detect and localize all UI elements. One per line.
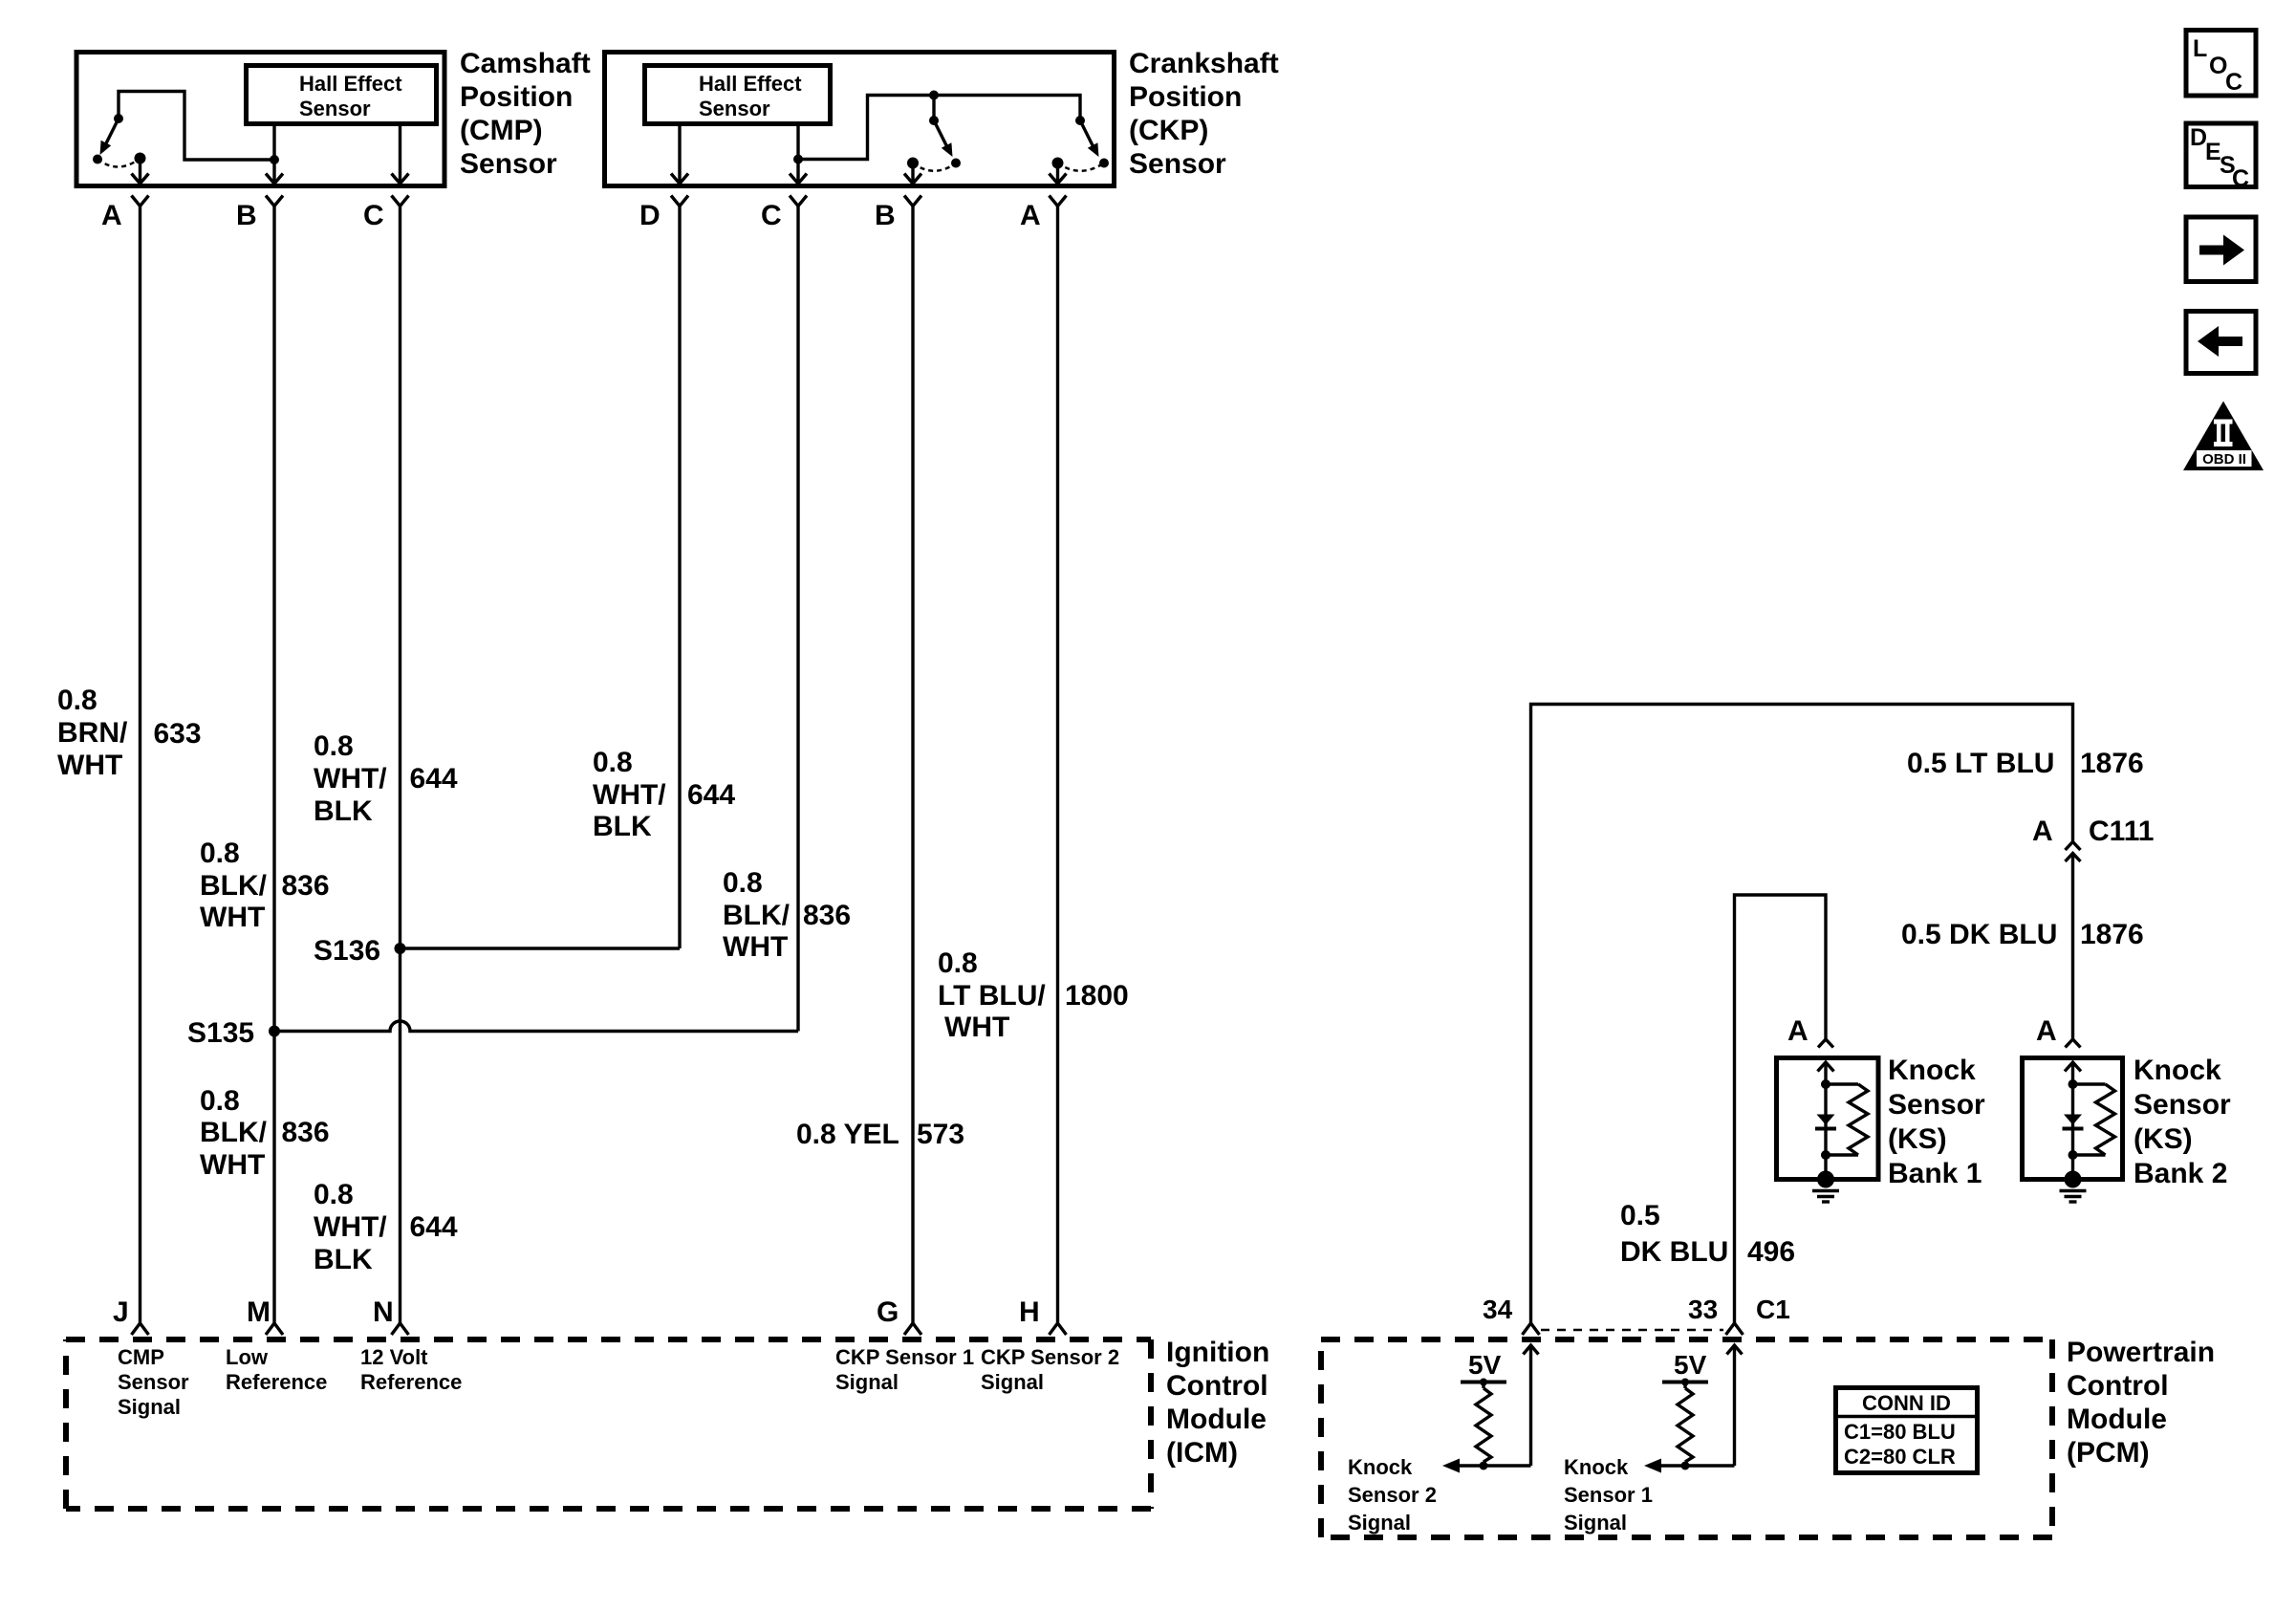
DESC icon box [2186, 123, 2256, 192]
svg-text:C: C [2232, 165, 2249, 192]
svg-text:A: A [2032, 816, 2053, 847]
svg-text:5V: 5V [1674, 1350, 1707, 1380]
svg-text:Knock: Knock [1888, 1055, 1976, 1086]
PCM module title [2067, 1337, 2215, 1469]
svg-text:(KS): (KS) [1888, 1123, 1947, 1155]
CKP sensor title [1129, 48, 1279, 180]
splice S135 wire with hop [274, 1021, 798, 1032]
PCM module dashed box [1321, 1339, 2052, 1537]
connector C111 upper fork [2066, 842, 2081, 851]
CKP switch A dashed arc [1058, 163, 1105, 171]
svg-text:496: 496 [1747, 1236, 1795, 1268]
svg-text:B: B [236, 200, 257, 231]
svg-text:Sensor: Sensor [1129, 148, 1226, 180]
KS1 internal wire with up arrow [1818, 1062, 1834, 1180]
ICM pin G fork [904, 1323, 921, 1335]
wire 644 12 volt reference (CMP C) [399, 207, 401, 1323]
CMP pin B junction dot [270, 155, 279, 164]
label 0.8 BLK/WHT CKP C [723, 867, 791, 963]
svg-text:Sensor: Sensor [1888, 1089, 1985, 1121]
PCM 5V supply bar (33) [1662, 1379, 1708, 1386]
label 0.8 LT BLU/WHT [938, 947, 1046, 1043]
CKP switch A arm [1080, 120, 1099, 157]
svg-text:836: 836 [282, 1117, 330, 1148]
PCM label Knock Sensor 2 Signal [1348, 1455, 1437, 1535]
svg-text:33: 33 [1688, 1295, 1718, 1324]
label 0.5 DK BLU 496 [1620, 1200, 1728, 1268]
svg-text:836: 836 [282, 870, 330, 902]
KS2 connector fork [2066, 1039, 2081, 1048]
svg-text:Module: Module [1166, 1404, 1267, 1435]
svg-text:(CMP): (CMP) [460, 115, 543, 146]
svg-text:LT BLU/: LT BLU/ [938, 980, 1046, 1012]
svg-text:Signal: Signal [118, 1395, 181, 1419]
PCM pin 33 internal wire [1727, 1345, 1743, 1466]
svg-text:0.8: 0.8 [593, 747, 633, 778]
wire 496 DK BLU run [1735, 895, 1827, 1323]
PCM label Knock Sensor 1 Signal [1564, 1455, 1653, 1535]
PCM 5V supply bar (34) [1461, 1379, 1506, 1386]
CKP pin C connector fork [790, 196, 807, 207]
svg-text:C2=80 CLR: C2=80 CLR [1844, 1445, 1956, 1469]
PCM pin 34 fork [1523, 1323, 1540, 1335]
svg-text:Sensor: Sensor [460, 148, 557, 180]
KS1 ground dot [1817, 1171, 1834, 1188]
CMP pin B connector fork [266, 196, 283, 207]
svg-text:0.8: 0.8 [200, 1085, 240, 1117]
svg-text:0.5 LT BLU: 0.5 LT BLU [1907, 748, 2054, 779]
ICM label 12 Volt Reference [360, 1345, 462, 1394]
CMP sensor outer box [76, 53, 444, 186]
PCM pull resistor (34) [1476, 1382, 1491, 1467]
svg-text:BLK/: BLK/ [723, 900, 791, 931]
OBD II icon triangle [2183, 402, 2264, 471]
CKP pin B terminal dot [907, 158, 919, 169]
svg-text:J: J [113, 1296, 129, 1328]
CKP pin B internal wire [904, 163, 921, 185]
KS1 label [1888, 1055, 1985, 1189]
svg-text:A: A [1787, 1015, 1809, 1047]
splice S135 dot [269, 1026, 280, 1037]
KS2 ground dot [2065, 1171, 2082, 1188]
svg-text:1800: 1800 [1065, 980, 1129, 1012]
svg-text:Bank 1: Bank 1 [1888, 1158, 1982, 1189]
CMP sensor title [460, 48, 591, 180]
svg-text:A: A [101, 200, 122, 231]
label 0.8 BLK/WHT lower [200, 1085, 268, 1181]
svg-text:Sensor 2: Sensor 2 [1348, 1483, 1437, 1507]
svg-text:Powertrain: Powertrain [2067, 1337, 2215, 1368]
svg-text:Signal: Signal [835, 1370, 899, 1394]
label 0.8 BLK/WHT upper [200, 838, 268, 933]
KS2 resistor [2073, 1084, 2115, 1155]
label 0.8 BRN/WHT [57, 685, 128, 781]
svg-text:BRN/: BRN/ [57, 717, 128, 749]
CMP Hall Effect Sensor box [247, 66, 437, 124]
KS1 diode [1815, 1115, 1836, 1129]
svg-text:B: B [875, 200, 896, 231]
svg-text:Sensor: Sensor [118, 1370, 189, 1394]
svg-text:Sensor 1: Sensor 1 [1564, 1483, 1653, 1507]
svg-text:BLK: BLK [593, 811, 652, 842]
wire 644 CKP D drop [678, 207, 681, 949]
svg-text:A: A [1020, 200, 1041, 231]
svg-text:(KS): (KS) [2134, 1123, 2193, 1155]
ICM label CKP Sensor 2 Signal [981, 1345, 1119, 1394]
svg-text:A: A [2036, 1015, 2057, 1047]
svg-text:(ICM): (ICM) [1166, 1437, 1238, 1469]
svg-text:Crankshaft: Crankshaft [1129, 48, 1279, 79]
CMP switch dashed arc [97, 159, 141, 167]
LOC icon box [2186, 31, 2256, 97]
PCM knock 1 signal wire [1644, 1459, 1735, 1473]
svg-text:573: 573 [917, 1119, 964, 1150]
svg-text:5V: 5V [1468, 1350, 1502, 1380]
svg-text:DK BLU: DK BLU [1620, 1236, 1728, 1268]
svg-text:G: G [877, 1296, 899, 1328]
svg-text:Position: Position [1129, 81, 1242, 113]
svg-text:0.5: 0.5 [1620, 1200, 1660, 1231]
svg-text:644: 644 [687, 779, 735, 811]
CMP pin C internal wire [392, 126, 409, 185]
svg-text:34: 34 [1483, 1295, 1513, 1324]
CKP switch B contact dot [951, 159, 961, 168]
wire 836 CKP C drop [796, 207, 799, 1032]
CKP switch A pivot dot [1075, 116, 1085, 125]
KS2 diode [2063, 1115, 2084, 1129]
svg-text:0.5 DK BLU: 0.5 DK BLU [1901, 919, 2057, 950]
svg-text:Hall Effect: Hall Effect [299, 72, 402, 96]
svg-text:(PCM): (PCM) [2067, 1437, 2150, 1469]
svg-text:H: H [1019, 1296, 1040, 1328]
CKP pin A connector fork [1050, 196, 1067, 207]
CKP pin D connector fork [671, 196, 688, 207]
CKP pin C internal wire [790, 126, 807, 185]
PCM knock 2 signal wire [1442, 1459, 1531, 1473]
PCM pin 34 internal wire [1524, 1345, 1539, 1466]
CKP pin A terminal dot [1052, 158, 1064, 169]
KS2 ground symbol [2060, 1191, 2087, 1203]
CKP pin D internal wire [671, 126, 688, 185]
CKP switch B dashed arc [913, 163, 956, 171]
knock sensor KS bank 2 box [2023, 1058, 2123, 1180]
svg-text:CKP Sensor 1: CKP Sensor 1 [835, 1345, 974, 1369]
CKP switch B feed stub [932, 96, 935, 121]
svg-text:Reference: Reference [360, 1370, 462, 1394]
CKP pin C junction dot [793, 155, 803, 164]
svg-text:Reference: Reference [226, 1370, 327, 1394]
svg-text:Bank 2: Bank 2 [2134, 1158, 2227, 1189]
svg-text:WHT/: WHT/ [314, 763, 387, 795]
svg-text:M: M [247, 1296, 271, 1328]
KS1 bottom junction dot [1821, 1150, 1830, 1160]
KS1 ground symbol [1812, 1191, 1839, 1203]
CKP switch B feed dot [929, 91, 939, 100]
svg-text:BLK/: BLK/ [200, 870, 268, 902]
PCM pull resistor (33) [1678, 1382, 1693, 1467]
svg-text:Ignition: Ignition [1166, 1337, 1269, 1368]
svg-text:0.8: 0.8 [723, 867, 763, 899]
CKP sensor outer box [605, 53, 1115, 186]
svg-text:0.8: 0.8 [938, 947, 978, 979]
CMP pin A connector fork [132, 196, 149, 207]
CKP switch B pivot dot [929, 116, 939, 125]
svg-text:C1=80 BLU: C1=80 BLU [1844, 1420, 1956, 1444]
wire 573 CKP sensor 1 signal [911, 207, 914, 1323]
CMP pin B internal wire [266, 126, 283, 185]
wire 633 CMP sensor signal [139, 207, 141, 1323]
svg-text:BLK/: BLK/ [200, 1117, 268, 1148]
CMP pin A terminal dot [135, 153, 146, 164]
svg-text:Signal: Signal [981, 1370, 1044, 1394]
label 0.8 WHT/BLK CKP D [593, 747, 666, 842]
svg-text:BLK: BLK [314, 795, 373, 827]
connector C111 lower fork [2066, 854, 2081, 862]
CKP Hall Effect Sensor label [699, 72, 802, 120]
CMP pin A internal wire [132, 159, 149, 185]
CMP switch arm [105, 119, 119, 145]
ICM label CKP Sensor 1 Signal [835, 1345, 974, 1394]
svg-text:836: 836 [803, 900, 851, 931]
KS1 connector fork [1818, 1039, 1833, 1048]
svg-text:C: C [363, 200, 384, 231]
svg-text:Sensor: Sensor [2134, 1089, 2231, 1121]
svg-text:(CKP): (CKP) [1129, 115, 1208, 146]
CMP switch contact dot [93, 155, 102, 164]
svg-text:N: N [373, 1296, 394, 1328]
right arrow icon box [2186, 217, 2256, 282]
svg-text:D: D [639, 200, 661, 231]
svg-text:L: L [2193, 35, 2207, 62]
ICM label CMP Sensor Signal [118, 1345, 189, 1419]
splice S136 dot [395, 943, 406, 954]
svg-text:Knock: Knock [2134, 1055, 2221, 1086]
svg-text:Knock: Knock [1564, 1455, 1629, 1479]
ICM label Low Reference [226, 1345, 327, 1394]
ICM module title [1166, 1337, 1269, 1469]
svg-text:WHT: WHT [200, 1149, 265, 1181]
wire 1800 CKP sensor 2 signal [1056, 207, 1059, 1323]
CKP Hall Effect Sensor box [645, 66, 831, 124]
svg-text:Control: Control [1166, 1370, 1268, 1402]
CMP pin C connector fork [392, 196, 409, 207]
CKP switch A contact dot [1099, 159, 1109, 168]
CKP pin A internal wire [1050, 163, 1067, 185]
label 0.8 WHT/BLK upper [314, 730, 387, 827]
CKP pin B connector fork [904, 196, 921, 207]
svg-text:Sensor: Sensor [699, 97, 770, 120]
ICM module dashed box [66, 1339, 1151, 1509]
CMP switch feed wire [119, 92, 274, 161]
svg-text:WHT: WHT [57, 750, 122, 781]
svg-text:CMP: CMP [118, 1345, 164, 1369]
svg-text:Control: Control [2067, 1370, 2169, 1402]
splice S136 wire [401, 947, 681, 949]
svg-text:Hall Effect: Hall Effect [699, 72, 802, 96]
KS2 top junction dot [2069, 1079, 2078, 1089]
svg-text:0.8 YEL: 0.8 YEL [796, 1119, 899, 1150]
svg-text:1876: 1876 [2080, 919, 2144, 950]
svg-text:Sensor: Sensor [299, 97, 371, 120]
wire 836 low reference (CMP B) [272, 207, 275, 1323]
knock sensor KS bank 1 box [1777, 1058, 1879, 1180]
svg-text:C: C [2225, 69, 2242, 96]
svg-text:S135: S135 [187, 1017, 254, 1049]
svg-text:12 Volt: 12 Volt [360, 1345, 428, 1369]
CKP switch B arm [934, 120, 953, 157]
ICM pin N fork [392, 1323, 409, 1335]
svg-text:Position: Position [460, 81, 573, 113]
svg-text:Module: Module [2067, 1404, 2167, 1435]
svg-text:WHT: WHT [200, 902, 265, 933]
svg-text:WHT: WHT [723, 931, 788, 963]
CONN ID table box [1836, 1388, 1978, 1473]
svg-text:0.8: 0.8 [314, 730, 354, 762]
KS2 label [2134, 1055, 2231, 1189]
ICM pin M fork [266, 1323, 283, 1335]
svg-text:Signal: Signal [1348, 1511, 1411, 1535]
svg-text:C111: C111 [2089, 816, 2154, 847]
wire 1876 DK BLU [2071, 854, 2074, 1040]
left arrow icon box [2186, 312, 2256, 374]
svg-text:0.8: 0.8 [57, 685, 97, 716]
PCM pin 33 fork [1726, 1323, 1744, 1335]
svg-text:CONN ID: CONN ID [1862, 1391, 1951, 1415]
svg-text:CKP Sensor 2: CKP Sensor 2 [981, 1345, 1119, 1369]
svg-text:644: 644 [410, 1211, 458, 1243]
svg-text:0.8: 0.8 [314, 1179, 354, 1210]
KS1 top junction dot [1821, 1079, 1830, 1089]
svg-text:Knock: Knock [1348, 1455, 1413, 1479]
ICM pin H fork [1050, 1323, 1067, 1335]
KS2 bottom junction dot [2069, 1150, 2078, 1160]
PCM connector C1 dashed link [1541, 1329, 1723, 1332]
wire 1876 LT BLU top run [1531, 705, 2073, 1323]
svg-text:WHT: WHT [944, 1012, 1009, 1043]
CMP Hall Effect Sensor label [299, 72, 402, 120]
svg-text:WHT/: WHT/ [593, 779, 666, 811]
svg-text:633: 633 [154, 718, 202, 750]
KS1 resistor [1826, 1084, 1868, 1155]
svg-text:1876: 1876 [2080, 748, 2144, 779]
svg-text:Camshaft: Camshaft [460, 48, 591, 79]
ICM pin J fork [132, 1323, 149, 1335]
KS2 internal wire with up arrow [2065, 1062, 2081, 1180]
svg-text:WHT/: WHT/ [314, 1211, 387, 1243]
svg-text:0.8: 0.8 [200, 838, 240, 869]
svg-text:S136: S136 [314, 935, 380, 967]
label 0.8 WHT/BLK lower [314, 1179, 387, 1275]
svg-text:OBD II: OBD II [2202, 451, 2246, 468]
svg-text:C: C [761, 200, 782, 231]
CMP switch pivot dot [114, 114, 123, 123]
svg-text:644: 644 [410, 763, 458, 795]
svg-text:BLK: BLK [314, 1244, 373, 1275]
svg-text:C1: C1 [1756, 1295, 1790, 1324]
CKP switch feed wire [798, 96, 1080, 160]
svg-text:Low: Low [226, 1345, 269, 1369]
svg-text:Signal: Signal [1564, 1511, 1627, 1535]
